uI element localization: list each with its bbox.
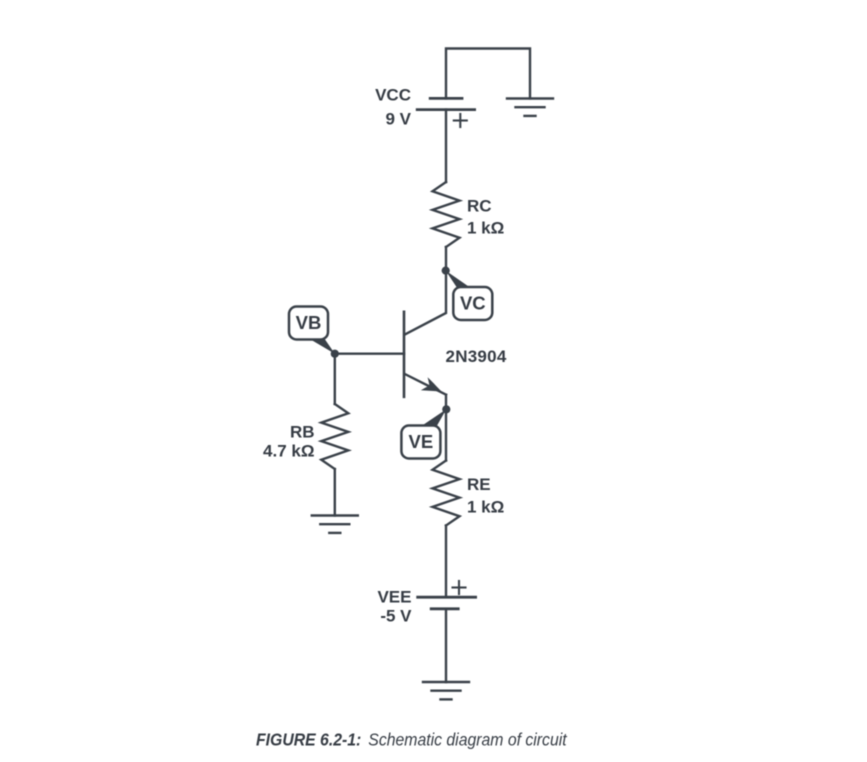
battery VCC 9V bbox=[417, 98, 474, 127]
wire RC to collector bbox=[405, 247, 446, 335]
ground (under RB) bbox=[312, 516, 358, 533]
svg-text:1 kΩ: 1 kΩ bbox=[467, 219, 504, 238]
svg-text:RB: RB bbox=[290, 423, 315, 442]
label RE bbox=[467, 475, 491, 494]
resistor RB bbox=[321, 404, 348, 469]
wire emitter to VE node to RE bbox=[445, 395, 447, 461]
caption FIGURE 6.2-1 bbox=[256, 730, 568, 750]
svg-text:-5 V: -5 V bbox=[380, 607, 412, 626]
svg-text:4.7 kΩ: 4.7 kΩ bbox=[263, 442, 314, 461]
svg-text:9 V: 9 V bbox=[385, 110, 411, 129]
label RE value 1 kOhm bbox=[467, 498, 504, 517]
label RB bbox=[290, 423, 315, 442]
wire base from VB node to transistor bbox=[335, 353, 404, 355]
svg-text:RE: RE bbox=[467, 475, 491, 494]
svg-text:1 kΩ: 1 kΩ bbox=[467, 498, 504, 517]
wire RE to VEE battery bbox=[445, 526, 447, 598]
wire battery VCC to RC bbox=[445, 110, 447, 182]
wire from VCC battery top to top-right corner bbox=[446, 49, 530, 99]
svg-text:VE: VE bbox=[409, 431, 434, 452]
transistor Q1 2N3904 bbox=[404, 312, 446, 397]
node VB bbox=[289, 307, 339, 358]
svg-text:VC: VC bbox=[460, 293, 486, 314]
svg-text:VEE: VEE bbox=[377, 588, 411, 607]
svg-text:2N3904: 2N3904 bbox=[446, 347, 507, 366]
ground (top right) bbox=[507, 99, 553, 116]
label VEE bbox=[377, 588, 411, 607]
node VE bbox=[401, 405, 450, 458]
battery VEE -5V bbox=[418, 581, 476, 609]
label 2N3904 bbox=[446, 347, 507, 366]
label VCC bbox=[375, 86, 411, 105]
label RC bbox=[467, 197, 492, 216]
label -5 V bbox=[380, 607, 412, 626]
svg-text:RC: RC bbox=[467, 197, 492, 216]
svg-text:VB: VB bbox=[296, 312, 322, 333]
label RB value 4.7 kOhm bbox=[263, 442, 314, 461]
wire VEE to bottom ground bbox=[445, 609, 447, 682]
node VC bbox=[442, 267, 493, 321]
resistor RC bbox=[433, 182, 460, 247]
ground (bottom) bbox=[423, 682, 469, 699]
label 9 V bbox=[385, 110, 411, 129]
wire VB node to RB bbox=[334, 354, 336, 404]
resistor RE bbox=[433, 461, 460, 526]
svg-text:VCC: VCC bbox=[375, 86, 411, 105]
wire RB to ground bbox=[334, 469, 336, 516]
label RC value 1 kOhm bbox=[467, 219, 504, 238]
svg-text:FIGURE 6.2-1:Schematic diagram: FIGURE 6.2-1:Schematic diagram of circui… bbox=[256, 730, 568, 750]
